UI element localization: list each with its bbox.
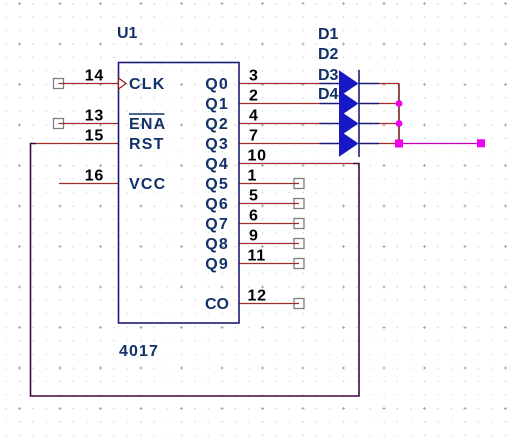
svg-text:13: 13	[85, 108, 104, 125]
svg-text:Q6: Q6	[205, 196, 229, 213]
svg-text:12: 12	[248, 288, 267, 305]
svg-text:4017: 4017	[119, 343, 159, 360]
svg-text:15: 15	[85, 128, 104, 145]
svg-text:4: 4	[249, 108, 259, 125]
svg-text:2: 2	[249, 88, 259, 105]
svg-text:14: 14	[85, 68, 104, 85]
svg-text:Q4: Q4	[205, 156, 229, 173]
svg-text:6: 6	[249, 208, 259, 225]
svg-text:Q0: Q0	[205, 76, 229, 93]
svg-text:1: 1	[248, 168, 258, 185]
svg-text:10: 10	[248, 148, 267, 165]
svg-text:D1: D1	[318, 26, 339, 43]
svg-text:CLK: CLK	[129, 76, 165, 93]
svg-text:VCC: VCC	[129, 176, 166, 193]
svg-text:5: 5	[249, 188, 259, 205]
svg-text:Q9: Q9	[205, 256, 229, 273]
svg-text:D2: D2	[318, 46, 339, 63]
svg-text:Q7: Q7	[205, 216, 229, 233]
svg-text:ENA: ENA	[129, 116, 166, 133]
svg-text:D4: D4	[318, 86, 339, 103]
svg-text:RST: RST	[129, 136, 165, 153]
svg-text:D3: D3	[318, 67, 339, 84]
svg-text:Q5: Q5	[205, 176, 229, 193]
svg-text:16: 16	[85, 168, 104, 185]
svg-text:Q3: Q3	[205, 136, 229, 153]
svg-text:U1: U1	[117, 25, 138, 42]
svg-text:3: 3	[249, 68, 259, 85]
svg-text:7: 7	[249, 128, 259, 145]
svg-text:11: 11	[248, 248, 266, 265]
svg-text:9: 9	[249, 228, 259, 245]
svg-text:Q1: Q1	[205, 96, 229, 113]
svg-text:Q2: Q2	[205, 116, 229, 133]
svg-text:Q8: Q8	[205, 236, 229, 253]
svg-text:CO: CO	[205, 296, 229, 313]
